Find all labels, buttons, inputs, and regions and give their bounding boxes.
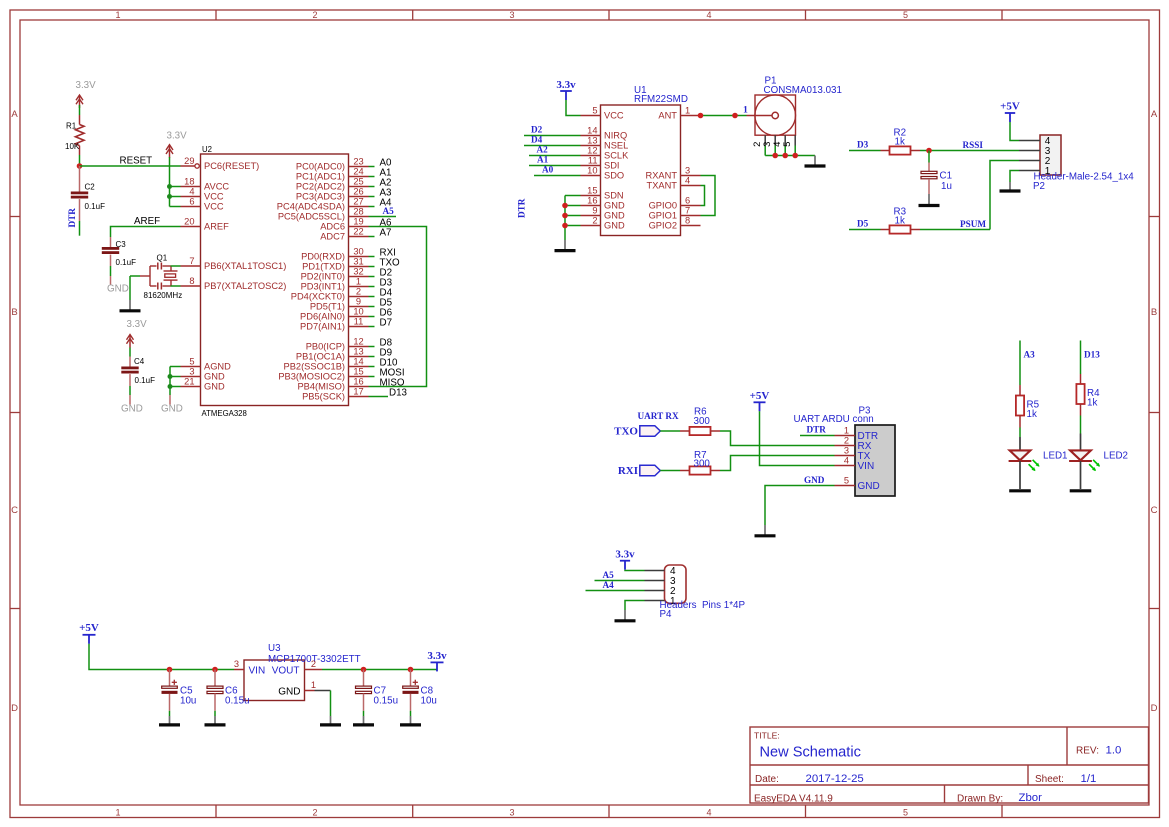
C5 plus sign	[172, 681, 177, 683]
wire RSSI net	[920, 150, 1019, 152]
svg-text:8: 8	[189, 276, 194, 286]
U2 pin 5 AGND	[181, 366, 201, 368]
svg-text:B: B	[1151, 307, 1157, 318]
U3 pin 2 VOUT	[305, 669, 323, 671]
P4 pin 1	[645, 600, 665, 602]
svg-text:GND: GND	[107, 284, 129, 295]
U2 pin 2 PD4(XCKT0)	[349, 296, 369, 298]
svg-text:GND: GND	[804, 475, 825, 485]
U2 pin 10 PD6(AIN0)	[349, 316, 369, 318]
U2 pin 16 PB4(MISO)	[349, 386, 369, 388]
svg-text:NSEL: NSEL	[604, 141, 628, 151]
op-amp U3 MCP1700T body	[244, 660, 305, 701]
svg-text:SDI: SDI	[604, 161, 620, 171]
wire net stub pin 22	[369, 236, 375, 238]
svg-text:2017-12-25: 2017-12-25	[806, 773, 864, 785]
svg-text:5: 5	[782, 142, 793, 147]
wire C3 to GND flag	[110, 266, 112, 276]
P2 pin 4	[1019, 140, 1040, 142]
junction ANT a	[698, 113, 704, 119]
wire ANT to P1	[701, 115, 747, 117]
svg-text:Date:: Date:	[755, 774, 779, 785]
svg-text:1/1: 1/1	[1081, 773, 1097, 785]
junction C7	[361, 667, 367, 673]
resistor R3	[881, 229, 890, 231]
svg-text:PD5(T1): PD5(T1)	[310, 302, 345, 312]
svg-text:8: 8	[685, 216, 690, 226]
svg-text:11: 11	[588, 156, 598, 166]
svg-text:REV:: REV:	[1076, 746, 1099, 757]
wire A4 net	[586, 590, 645, 592]
wire net stub pin 31	[369, 266, 375, 268]
wire +5V to P3 VIN	[760, 411, 835, 465]
svg-text:RXI: RXI	[618, 465, 638, 477]
wire net stub pin 30	[369, 256, 375, 258]
svg-text:AREF: AREF	[134, 216, 160, 227]
wire net stub pin 15	[369, 376, 375, 378]
wire RXANT to GPIO1 loop	[701, 176, 716, 216]
svg-text:D13: D13	[389, 387, 408, 398]
svg-text:Drawn By:: Drawn By:	[957, 794, 1003, 805]
svg-text:GPIO1: GPIO1	[649, 211, 677, 221]
svg-text:PD4(XCKT0): PD4(XCKT0)	[291, 292, 345, 302]
ground (Q1)	[129, 300, 131, 310]
op-amp U1 RFM22SMD body	[601, 105, 681, 236]
junction P1 pin5	[792, 153, 798, 159]
svg-text:2: 2	[844, 436, 849, 446]
ground (U3)	[330, 716, 332, 724]
svg-text:+5V: +5V	[750, 390, 770, 402]
U2 pin 20 AREF	[181, 226, 201, 228]
U2 pin 19 ADC6	[349, 226, 369, 228]
P4 pin 3	[645, 580, 665, 582]
U2 pin 29 PC6(RESET)	[181, 165, 195, 167]
wire net stub pin 10	[369, 316, 375, 318]
svg-text:10K: 10K	[65, 142, 80, 151]
junction P1 pin3	[772, 153, 778, 159]
svg-text:Header-Male-2.54_1x4: Header-Male-2.54_1x4	[1034, 172, 1135, 183]
svg-text:PC6(RESET): PC6(RESET)	[204, 161, 259, 171]
svg-text:4: 4	[189, 187, 194, 197]
wire D5 net	[849, 229, 881, 231]
power flag 3.3V (U2 VCC)	[169, 145, 171, 158]
svg-text:New Schematic: New Schematic	[760, 745, 861, 761]
svg-text:31: 31	[353, 257, 363, 267]
U2 pin 11 PD7(AIN1)	[349, 326, 369, 328]
wire +5V to P2 pin4	[1010, 122, 1019, 141]
svg-text:0.1uF: 0.1uF	[85, 202, 106, 211]
svg-text:10u: 10u	[421, 696, 437, 707]
svg-text:GND: GND	[858, 481, 880, 492]
capacitor C7	[363, 670, 365, 687]
svg-text:GND: GND	[204, 372, 225, 382]
svg-text:+5V: +5V	[79, 622, 99, 634]
U2 pin 1 PD3(INT1)	[349, 286, 369, 288]
LED LED1	[1019, 437, 1021, 450]
svg-text:VIN: VIN	[249, 665, 266, 676]
svg-text:1: 1	[844, 426, 849, 436]
wire net stub pin 32	[369, 276, 375, 278]
svg-text:7: 7	[189, 256, 194, 266]
wire Q1 pin8 to PB7	[171, 285, 181, 287]
svg-text:3.3V: 3.3V	[167, 131, 188, 142]
svg-text:18: 18	[184, 177, 194, 187]
svg-text:PC2(ADC2): PC2(ADC2)	[296, 182, 345, 192]
svg-text:PB3(MOSIOC2): PB3(MOSIOC2)	[278, 372, 345, 382]
svg-text:15: 15	[353, 367, 363, 377]
U1 pin 4 TXANT	[681, 185, 701, 187]
svg-text:TITLE:: TITLE:	[754, 731, 780, 741]
power flag 3.3v (U3 out)	[431, 661, 444, 663]
svg-text:Sheet:: Sheet:	[1035, 774, 1064, 785]
wire DTR net to P3	[800, 435, 835, 437]
U2 pin 23 PC0(ADC0)	[349, 166, 369, 168]
svg-text:20: 20	[184, 217, 194, 227]
U2 pin 25 PC2(ADC2)	[349, 186, 369, 188]
wire U3 GND to ground	[315, 690, 331, 692]
LED2 light arrows	[1093, 460, 1099, 466]
svg-text:PD7(AIN1): PD7(AIN1)	[300, 322, 345, 332]
svg-text:4: 4	[706, 10, 711, 20]
P1 pins 2-5	[764, 135, 766, 145]
U2 pin 27 PC4(ADC4SDA)	[349, 206, 369, 208]
title block	[750, 727, 1149, 803]
U2 pin 6 VCC	[181, 206, 201, 208]
svg-text:R1: R1	[66, 122, 77, 131]
port RXI	[640, 465, 661, 476]
svg-text:3: 3	[685, 166, 690, 176]
svg-text:Q1: Q1	[157, 254, 168, 263]
ground (U1)	[564, 240, 566, 249]
svg-text:A3: A3	[1024, 350, 1036, 360]
U1 pin 3 RXANT	[681, 175, 701, 177]
svg-text:A5: A5	[603, 570, 615, 580]
svg-text:29: 29	[184, 156, 194, 166]
wire D2 net to NIRQ	[524, 135, 581, 137]
wire AREF net	[111, 227, 181, 238]
svg-text:GND: GND	[604, 201, 625, 211]
svg-text:VCC: VCC	[204, 192, 224, 202]
svg-text:RFM22SMD: RFM22SMD	[634, 94, 688, 105]
svg-text:PC0(ADC0): PC0(ADC0)	[296, 162, 345, 172]
LED LED2	[1080, 434, 1082, 451]
svg-text:A6: A6	[380, 217, 393, 228]
wire C2 to DTR stub	[79, 221, 81, 236]
U2 pin 18 AVCC	[181, 186, 201, 188]
svg-text:14: 14	[587, 126, 597, 136]
svg-text:ANT: ANT	[658, 111, 677, 121]
svg-text:ATMEGA328: ATMEGA328	[202, 409, 247, 418]
wire net stub pin 14	[369, 366, 375, 368]
svg-text:5: 5	[844, 476, 849, 486]
wire 3.3v to U1 VCC	[566, 100, 581, 116]
U1 pin 14 NIRQ	[581, 135, 601, 137]
svg-text:4: 4	[685, 176, 690, 186]
svg-text:2: 2	[592, 216, 597, 226]
svg-text:CONSMA013.031: CONSMA013.031	[764, 85, 842, 96]
svg-text:PB2(SSOC1B): PB2(SSOC1B)	[284, 362, 345, 372]
svg-text:5: 5	[903, 10, 908, 20]
svg-text:A7: A7	[380, 227, 392, 238]
P3 pin 5 GND	[835, 485, 856, 487]
svg-text:6: 6	[189, 197, 194, 207]
svg-text:81620MHz: 81620MHz	[144, 291, 183, 300]
wire net stub pin 13	[369, 356, 375, 358]
junction AVCC	[167, 184, 172, 189]
svg-text:SDO: SDO	[604, 171, 624, 181]
svg-text:13: 13	[587, 136, 597, 146]
svg-text:22: 22	[353, 227, 363, 237]
op-amp U2 ATMEGA328 body	[201, 154, 349, 406]
U2 pin 30 PD0(RXD)	[349, 256, 369, 258]
svg-text:GND: GND	[278, 686, 300, 697]
svg-text:PD0(RXD): PD0(RXD)	[301, 252, 345, 262]
U1 pin 15 SDN	[581, 195, 601, 197]
svg-text:1u: 1u	[941, 181, 952, 192]
ground (C1)	[928, 194, 930, 204]
svg-text:P2: P2	[1033, 181, 1045, 192]
capacitor C2	[79, 166, 81, 192]
resistor R2	[881, 150, 890, 152]
svg-text:PB0(ICP): PB0(ICP)	[306, 342, 345, 352]
svg-text:PC4(ADC4SDA): PC4(ADC4SDA)	[277, 202, 345, 212]
wire LED2 to ground	[1080, 461, 1082, 489]
ground (P4)	[624, 610, 626, 620]
svg-text:10: 10	[353, 307, 363, 317]
svg-text:12: 12	[353, 337, 363, 347]
wire GND net to P3 pin5	[765, 486, 835, 526]
P4 pin 2	[645, 590, 665, 592]
svg-text:VIN: VIN	[858, 461, 875, 472]
wire net stub pin 26	[369, 196, 375, 198]
wire R6 to P3 RX	[720, 431, 835, 446]
svg-text:11: 11	[354, 317, 364, 327]
svg-text:3: 3	[234, 659, 239, 669]
svg-text:D7: D7	[380, 317, 393, 328]
wire net stub pin 23	[369, 166, 375, 168]
svg-text:1.0: 1.0	[1106, 745, 1122, 757]
junction R2/C1	[926, 148, 932, 154]
svg-text:A1: A1	[537, 155, 549, 165]
svg-text:C: C	[11, 505, 18, 516]
junction C5	[167, 667, 173, 673]
svg-text:A: A	[11, 109, 18, 120]
wire SDN/GND bus to ground	[565, 195, 581, 197]
P3 pin 4 VIN	[835, 465, 856, 467]
svg-text:PD3(INT1): PD3(INT1)	[301, 282, 345, 292]
svg-text:3: 3	[509, 10, 514, 20]
svg-text:2: 2	[312, 807, 317, 817]
junction C8	[408, 667, 414, 673]
svg-text:AVCC: AVCC	[204, 182, 229, 192]
connector P3 UART ARDU conn body	[855, 425, 895, 496]
resistor R1 (zigzag)	[79, 115, 81, 125]
connector P2 Header-Male body	[1040, 135, 1061, 175]
svg-text:24: 24	[353, 167, 363, 177]
ground (P1)	[814, 156, 816, 165]
svg-text:13: 13	[353, 347, 363, 357]
junction U1 GND16	[562, 203, 568, 209]
svg-text:1: 1	[115, 10, 120, 20]
svg-text:1: 1	[685, 106, 690, 116]
svg-text:D: D	[1151, 703, 1158, 714]
svg-text:30: 30	[353, 247, 363, 257]
svg-text:PB7(XTAL2TOSC2): PB7(XTAL2TOSC2)	[204, 281, 286, 291]
svg-text:DTR: DTR	[67, 208, 77, 228]
wire A2 net to SCLK	[529, 155, 581, 157]
wire D3 net	[849, 150, 881, 152]
svg-text:PC1(ADC1): PC1(ADC1)	[296, 172, 345, 182]
svg-text:0.15u: 0.15u	[374, 696, 399, 707]
svg-text:U2: U2	[202, 145, 212, 154]
svg-text:GND: GND	[161, 404, 183, 415]
svg-text:3.3V: 3.3V	[127, 319, 148, 330]
svg-text:PD6(AIN0): PD6(AIN0)	[300, 312, 345, 322]
wire 3.3V to C4	[129, 348, 131, 357]
svg-text:27: 27	[353, 197, 363, 207]
wire net stub pin 17	[369, 396, 389, 398]
svg-text:TXO: TXO	[614, 425, 638, 437]
U1 pin 12 SCLK	[581, 155, 601, 157]
LED1 light arrows	[1033, 460, 1039, 466]
svg-text:D4: D4	[531, 135, 543, 145]
U2 pin 4 VCC	[181, 196, 201, 198]
svg-text:1: 1	[356, 277, 361, 287]
U1 pin 7 GPIO1	[681, 215, 701, 217]
svg-text:NIRQ: NIRQ	[604, 131, 627, 141]
capacitor C1	[928, 151, 930, 163]
svg-text:UART ARDU conn: UART ARDU conn	[794, 414, 874, 425]
ground (LED1)	[1009, 489, 1031, 492]
capacitor C5	[169, 670, 171, 687]
power flag +5V (P2)	[1005, 112, 1015, 114]
junction U1 GND9	[562, 213, 568, 219]
svg-text:C2: C2	[85, 183, 96, 192]
svg-text:A4: A4	[603, 580, 615, 590]
wire net stub pin 24	[369, 176, 375, 178]
svg-text:VCC: VCC	[204, 202, 224, 212]
svg-text:5: 5	[903, 807, 908, 817]
svg-text:1: 1	[115, 807, 120, 817]
wire net stub pin 11	[369, 326, 375, 328]
wire P2 pin1 to ground	[1010, 171, 1019, 183]
svg-text:2: 2	[356, 287, 361, 297]
svg-text:A2: A2	[537, 145, 549, 155]
capacitor C6	[214, 670, 216, 687]
svg-text:DTR: DTR	[807, 425, 827, 435]
svg-text:23: 23	[353, 157, 363, 167]
capacitor C8	[410, 670, 412, 687]
svg-text:10u: 10u	[180, 696, 196, 707]
svg-text:EasyEDA V4.11.9: EasyEDA V4.11.9	[754, 794, 833, 805]
wire A3 net	[1019, 341, 1021, 386]
P2 pin 2	[1019, 160, 1040, 162]
svg-text:3.3v: 3.3v	[427, 650, 447, 662]
wire PSUM net	[920, 229, 990, 231]
wire net stub pin 12	[369, 346, 375, 348]
U1 pin 16 GND	[581, 205, 601, 207]
svg-text:GPIO0: GPIO0	[649, 201, 677, 211]
capacitor C4	[129, 357, 131, 367]
svg-text:14: 14	[353, 357, 363, 367]
svg-text:D2: D2	[531, 125, 543, 135]
svg-text:A5: A5	[383, 206, 395, 216]
wire A0 net to SDO	[534, 175, 581, 177]
C8 plus sign	[413, 681, 418, 683]
P3 pin 2 RX	[835, 445, 856, 447]
wire TXO to R6	[660, 430, 680, 432]
svg-text:+5V: +5V	[1000, 100, 1020, 112]
junction R1/C2/RESET	[77, 163, 83, 169]
svg-text:D13: D13	[1084, 350, 1100, 360]
svg-text:3.3v: 3.3v	[615, 548, 635, 560]
U1 pin 1 ANT	[681, 115, 701, 117]
svg-text:RESET: RESET	[120, 156, 153, 167]
svg-text:C: C	[1151, 505, 1158, 516]
svg-text:RSSI: RSSI	[963, 140, 984, 150]
svg-text:P4: P4	[660, 609, 673, 620]
wire R4 to LED2	[1080, 416, 1082, 434]
svg-text:AREF: AREF	[204, 222, 229, 232]
svg-text:4: 4	[844, 456, 849, 466]
svg-text:2: 2	[311, 659, 316, 669]
U2 pin 31 PD1(TXD)	[349, 266, 369, 268]
connector P4 Headers Pins body	[665, 565, 687, 603]
junction GND pin3	[168, 374, 173, 379]
svg-text:LED1: LED1	[1043, 450, 1068, 461]
ground (P2)	[1009, 182, 1011, 190]
svg-text:C3: C3	[116, 240, 127, 249]
ground (P3)	[764, 525, 766, 535]
wire 3.3V to VCC pins	[169, 157, 171, 207]
svg-text:10: 10	[587, 166, 597, 176]
svg-text:28: 28	[353, 207, 363, 217]
svg-text:1k: 1k	[1087, 397, 1097, 408]
wire LED1 to ground	[1019, 461, 1021, 489]
svg-text:A0: A0	[542, 165, 554, 175]
svg-text:U3: U3	[268, 643, 281, 654]
power flag +5V (P3 VIN)	[754, 401, 766, 403]
svg-text:3: 3	[844, 446, 849, 456]
U1 pin 5 VCC	[581, 115, 601, 117]
resistor R7	[680, 470, 690, 472]
svg-text:C4: C4	[134, 357, 145, 366]
P4 pin 4	[645, 570, 665, 572]
wire 3.3V to R1	[79, 105, 81, 115]
U2 pin 7 PB6(XTAL1TOSC1)	[181, 265, 201, 267]
svg-text:PB4(MISO): PB4(MISO)	[297, 382, 345, 392]
capacitor C3	[110, 237, 112, 247]
wire P2 pin2 to PSUM	[990, 161, 1019, 230]
svg-text:PB1(OC1A): PB1(OC1A)	[296, 352, 345, 362]
svg-text:0.1uF: 0.1uF	[116, 258, 137, 267]
U2 pin 17 PB5(SCK)	[349, 396, 369, 398]
svg-text:PD1(TXD): PD1(TXD)	[302, 262, 345, 272]
power flag 3.3v (U1 VCC)	[560, 90, 572, 92]
svg-text:0.1uF: 0.1uF	[135, 376, 156, 385]
ground (LED2)	[1070, 489, 1092, 492]
wire R5 to LED1	[1019, 428, 1021, 438]
wire Q1 pin7 to PB6	[171, 265, 181, 267]
svg-text:PB6(XTAL1TOSC1): PB6(XTAL1TOSC1)	[204, 261, 286, 271]
P3 pin 1 DTR	[835, 435, 856, 437]
wire Q1 common to ground	[130, 275, 140, 277]
junction ANT b	[732, 113, 738, 119]
svg-text:1: 1	[743, 105, 748, 116]
svg-text:1: 1	[311, 680, 316, 690]
svg-text:GND: GND	[604, 211, 625, 221]
U2 pin 22 ADC7	[349, 236, 369, 238]
